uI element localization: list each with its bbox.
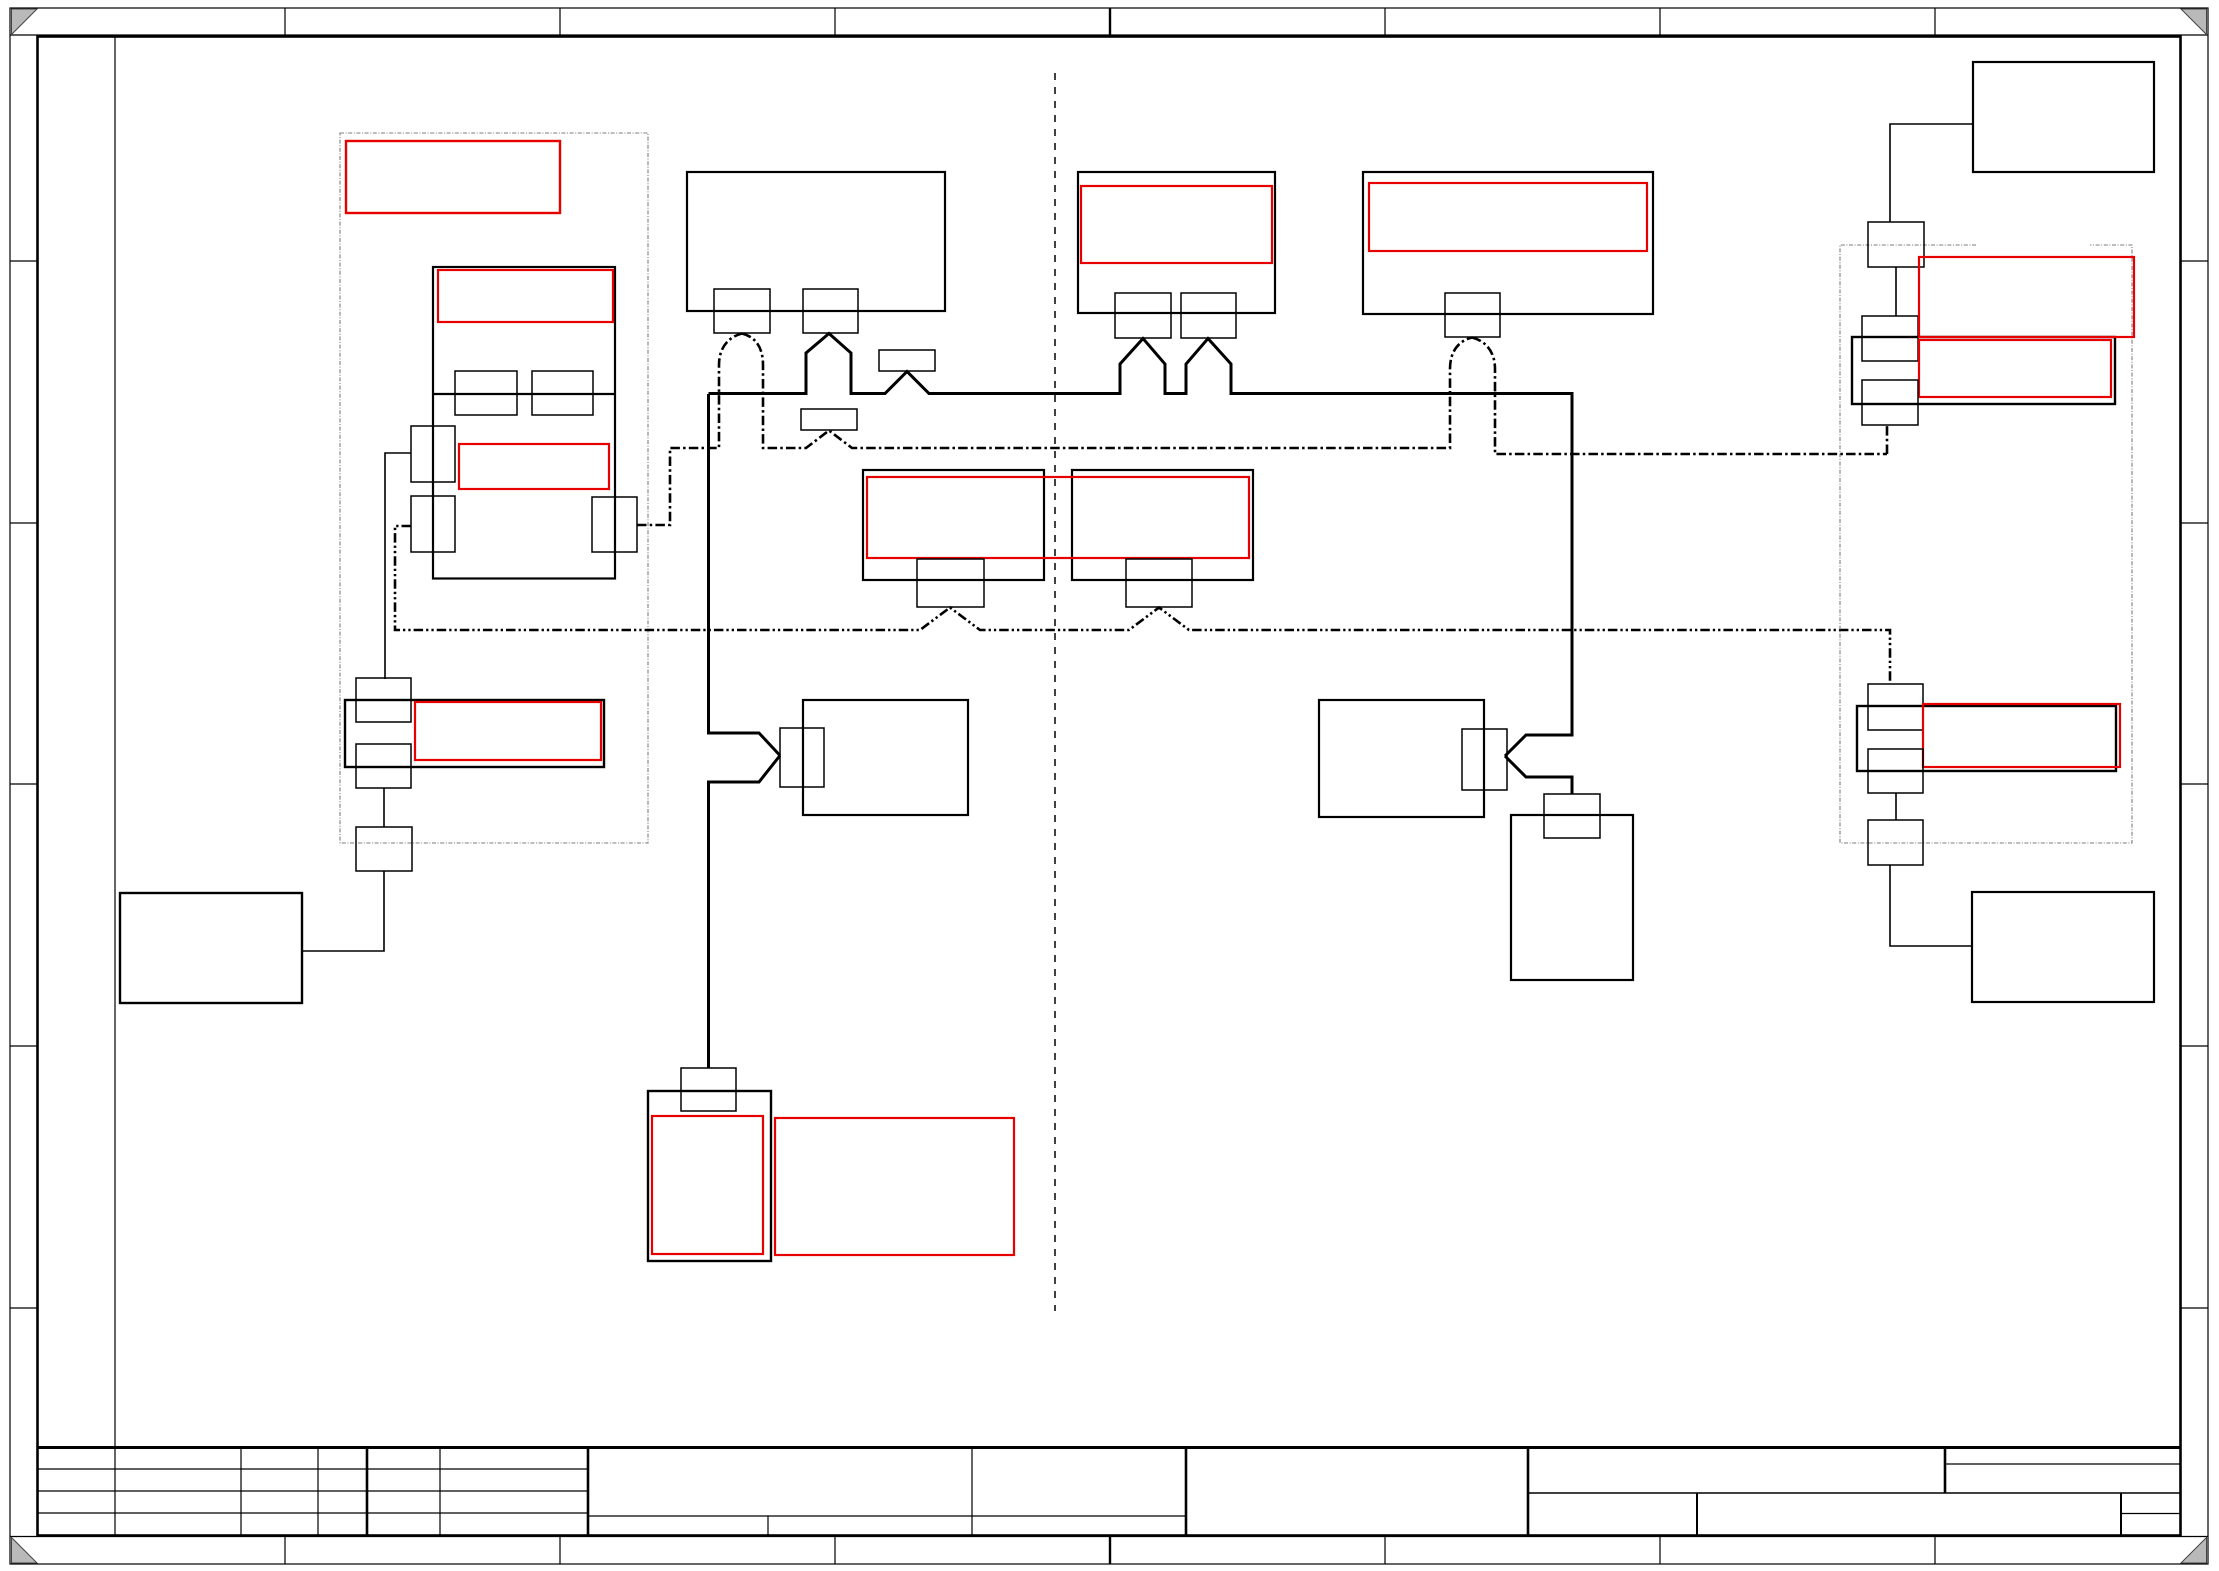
corner trim triangle bottom-right bbox=[2181, 1538, 2207, 1564]
component box B4 bbox=[1852, 337, 2115, 404]
B1 fuse box left bbox=[455, 371, 517, 415]
C2 connector K6 bbox=[1115, 293, 1171, 338]
connector K15 bbox=[1868, 820, 1923, 865]
component box C2 bbox=[1078, 172, 1275, 313]
B3 connector K16 bbox=[1462, 729, 1507, 790]
C1 connector K2 bbox=[803, 289, 858, 333]
connector K21 bbox=[356, 744, 411, 788]
title block right cells bbox=[1528, 1448, 2180, 1535]
control unit box B1 bbox=[433, 267, 615, 579]
component box C1 top center bbox=[687, 172, 945, 311]
wire K21 to K22 bbox=[383, 788, 385, 827]
red highlight in B1 middle bbox=[459, 444, 609, 489]
frame zone ticks left band bbox=[10, 261, 38, 1308]
red highlight in B8 bbox=[652, 1116, 763, 1254]
dash-dot wire riser to K12 bbox=[1886, 426, 1889, 454]
connector K14 bbox=[1868, 749, 1923, 793]
C6 connector K5b bbox=[1126, 559, 1192, 607]
frame zone ticks right band bbox=[2181, 261, 2208, 1308]
connector K12 bbox=[1862, 380, 1918, 425]
wire C4 to K9 bbox=[1890, 124, 1973, 222]
C2 connector K7 bbox=[1181, 293, 1236, 338]
corner trim triangle bottom-left bbox=[12, 1538, 38, 1564]
connector K11 bbox=[1862, 316, 1918, 361]
B1 connector X2 lower-left bbox=[411, 496, 455, 552]
thick power wire from B3 arrow down to K17 bbox=[1505, 756, 1572, 794]
red highlight in B4 bbox=[1919, 340, 2111, 397]
wire B1 to K20 chain bbox=[385, 453, 411, 679]
component box B5 bbox=[1857, 706, 2116, 771]
dash-dot wire K8 to right harness bbox=[1472, 338, 1887, 455]
connector K20 bbox=[356, 678, 411, 722]
red highlight in B9 bbox=[415, 702, 601, 760]
frame zone ticks bottom band bbox=[285, 1537, 1935, 1565]
red highlight in C3 bbox=[1369, 183, 1647, 251]
frame zone ticks top band bbox=[285, 8, 1935, 35]
red highlight in B1 top bbox=[438, 270, 613, 322]
C5 connector K5a bbox=[917, 559, 984, 607]
component box B6 bottom right bbox=[1972, 892, 2154, 1002]
component box C4 top right bbox=[1973, 62, 2154, 172]
C3 connector K8 bbox=[1445, 293, 1500, 337]
corner trim triangle top-right bbox=[2181, 9, 2207, 35]
in-line connector K4 bbox=[801, 409, 857, 430]
red highlight box beside B8 bbox=[775, 1118, 1014, 1255]
B2 connector K18 bbox=[780, 728, 824, 787]
red highlight in C2 bbox=[1081, 186, 1272, 263]
left margin column line bbox=[114, 37, 116, 1536]
dash-dot wire B1.X3 to connector K1 bbox=[637, 334, 742, 526]
thick power wire return from B2 arrow down to K19 bbox=[709, 756, 781, 1069]
dash-dot wire K1 to K4 to K8 bbox=[742, 334, 1472, 449]
component box B7 bbox=[1511, 815, 1633, 980]
component box B3 bbox=[1319, 700, 1484, 817]
B1 fuse box right bbox=[532, 371, 593, 415]
in-line connector K3 bbox=[879, 350, 935, 371]
sheet centerline bbox=[1054, 73, 1056, 1311]
red highlight box R1 bbox=[346, 141, 560, 213]
connector K17 bbox=[1544, 794, 1600, 838]
wire K22 to B10 bbox=[302, 871, 384, 951]
battery box B10 bbox=[120, 893, 302, 1003]
wire K14 to K15 bbox=[1895, 793, 1897, 820]
B1 internal rail bbox=[433, 393, 615, 395]
connector K13 bbox=[1868, 684, 1923, 730]
component box C5 bbox=[863, 470, 1044, 580]
B1 connector X1 upper-left bbox=[411, 426, 455, 482]
dash-dot-dot wire B1.X2 via K5a K5b to K13 bbox=[395, 526, 1890, 684]
component box C6 bbox=[1072, 470, 1253, 580]
relay box B9 bbox=[345, 700, 604, 767]
thick power wire: bus corner down to B2 arrow and B8 bbox=[709, 394, 781, 756]
connector K19 bbox=[681, 1068, 736, 1111]
thick power bus horizontal with connector bells bbox=[709, 334, 1573, 757]
red highlight box above B4 bbox=[1919, 257, 2134, 337]
C1 connector K1 bbox=[714, 289, 770, 333]
component box B2 bbox=[803, 700, 968, 815]
B1 connector X3 right bbox=[592, 497, 637, 552]
corner trim triangle top-left bbox=[12, 9, 38, 35]
component box C3 bbox=[1363, 172, 1653, 314]
component box B8 bbox=[648, 1091, 771, 1261]
red highlight spanning C5 and C6 bbox=[867, 477, 1249, 558]
title block heavy dividers bbox=[367, 1448, 1528, 1535]
title block middle cells bbox=[588, 1448, 1186, 1535]
right harness group dashed outline bbox=[1840, 245, 2132, 843]
title block top thick line bbox=[38, 1446, 2181, 1449]
wire K15 to B6 bbox=[1890, 865, 1972, 946]
red highlight in B5 bbox=[1923, 704, 2120, 767]
connector K9 bbox=[1868, 222, 1924, 267]
title block left section rows bbox=[38, 1448, 588, 1535]
left harness group dashed outline bbox=[340, 133, 648, 843]
connector K22 bbox=[356, 827, 412, 871]
wire K9 to K11 bbox=[1895, 267, 1897, 316]
